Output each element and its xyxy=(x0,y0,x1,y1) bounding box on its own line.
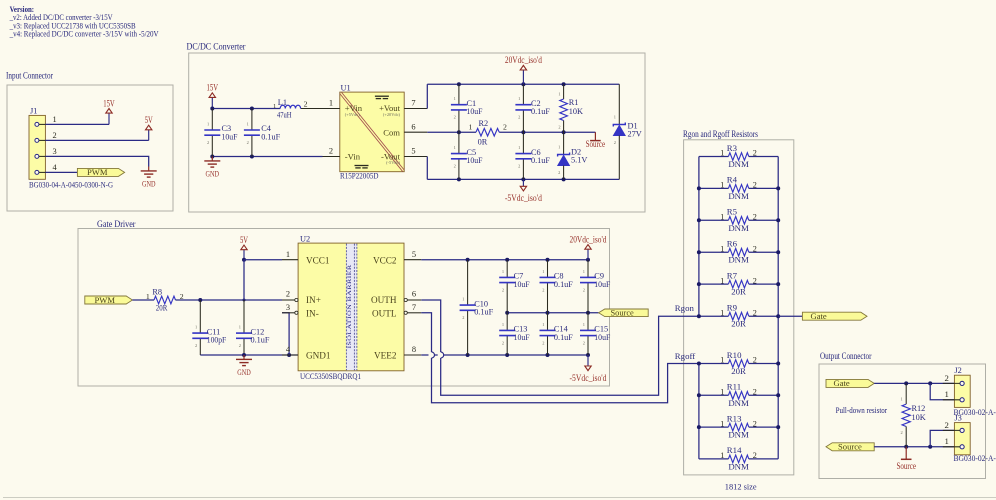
svg-text:1: 1 xyxy=(468,122,472,131)
svg-text:1: 1 xyxy=(518,145,520,150)
svg-text:1: 1 xyxy=(720,181,724,190)
svg-text:2: 2 xyxy=(558,125,560,130)
svg-text:-5Vdc_iso'd: -5Vdc_iso'd xyxy=(505,193,542,203)
svg-text:10uF: 10uF xyxy=(467,156,483,165)
svg-text:2: 2 xyxy=(753,276,757,285)
svg-text:2: 2 xyxy=(503,122,507,131)
svg-text:0.1uF: 0.1uF xyxy=(531,107,550,116)
svg-text:3: 3 xyxy=(286,303,290,312)
svg-text:R2: R2 xyxy=(479,119,489,128)
svg-text:10K: 10K xyxy=(912,413,926,422)
svg-text:DNM: DNM xyxy=(728,223,749,233)
svg-text:Rgoff: Rgoff xyxy=(675,351,695,361)
svg-text:1: 1 xyxy=(454,145,456,150)
svg-text:2: 2 xyxy=(945,373,949,383)
svg-text:J2: J2 xyxy=(954,366,961,375)
svg-text:R5: R5 xyxy=(727,207,738,217)
svg-text:GND: GND xyxy=(206,169,220,179)
svg-text:2: 2 xyxy=(753,308,757,317)
svg-text:VCC1: VCC1 xyxy=(306,255,330,265)
svg-text:20R: 20R xyxy=(731,287,746,297)
svg-text:Source: Source xyxy=(838,442,862,452)
svg-text:1: 1 xyxy=(502,322,504,327)
svg-text:1: 1 xyxy=(329,99,333,108)
svg-text:R6: R6 xyxy=(727,239,738,249)
svg-text:R15P22005D: R15P22005D xyxy=(340,171,379,181)
svg-text:6: 6 xyxy=(411,122,415,131)
svg-text:2: 2 xyxy=(945,420,949,430)
svg-text:5: 5 xyxy=(412,250,416,259)
svg-text:Source: Source xyxy=(896,461,916,471)
svg-text:DNM: DNM xyxy=(728,398,749,408)
svg-text:2: 2 xyxy=(53,131,57,140)
svg-text:ISOLATION BARRIER: ISOLATION BARRIER xyxy=(347,264,353,348)
svg-text:1: 1 xyxy=(247,121,249,126)
svg-text:IN-: IN- xyxy=(306,309,319,319)
svg-text:2: 2 xyxy=(901,430,903,435)
svg-text:R1: R1 xyxy=(569,98,579,107)
svg-text:R12: R12 xyxy=(912,404,926,413)
svg-text:2: 2 xyxy=(753,149,757,158)
svg-text:2: 2 xyxy=(583,287,585,292)
svg-text:5: 5 xyxy=(411,147,415,156)
svg-text:_v4: Replaced DC/DC converter: _v4: Replaced DC/DC converter -3/15V wit… xyxy=(9,28,159,38)
svg-text:100pF: 100pF xyxy=(207,336,227,345)
svg-text:R3: R3 xyxy=(727,143,738,153)
svg-text:2: 2 xyxy=(247,140,249,145)
svg-text:R8: R8 xyxy=(152,287,162,296)
svg-text:2: 2 xyxy=(753,388,757,397)
svg-text:2: 2 xyxy=(207,140,209,145)
svg-text:47uH: 47uH xyxy=(277,111,292,120)
svg-text:20Vdc_iso'd: 20Vdc_iso'd xyxy=(505,55,542,65)
svg-text:1: 1 xyxy=(53,115,57,124)
svg-text:R4: R4 xyxy=(727,175,738,185)
svg-text:2: 2 xyxy=(329,147,333,156)
svg-text:BG030-04-A-0450-0300-N-G: BG030-04-A-0450-0300-N-G xyxy=(29,179,114,189)
svg-text:1: 1 xyxy=(558,144,560,149)
svg-text:-Vin: -Vin xyxy=(345,151,361,161)
svg-text:10uF: 10uF xyxy=(594,333,610,342)
svg-text:Gate: Gate xyxy=(834,378,850,388)
svg-text:Rgon: Rgon xyxy=(675,303,695,313)
svg-text:DC/DC Converter: DC/DC Converter xyxy=(187,42,246,52)
svg-text:1: 1 xyxy=(273,103,276,110)
svg-text:GND: GND xyxy=(142,179,156,189)
svg-text:1: 1 xyxy=(286,250,290,259)
svg-text:2: 2 xyxy=(454,164,456,169)
svg-text:DNM: DNM xyxy=(728,255,749,265)
svg-text:OUTL: OUTL xyxy=(372,309,397,319)
svg-text:1: 1 xyxy=(239,325,241,330)
svg-text:R11: R11 xyxy=(727,382,741,392)
svg-text:27V: 27V xyxy=(628,129,642,138)
svg-text:5V: 5V xyxy=(145,115,153,125)
svg-text:2: 2 xyxy=(753,451,757,460)
svg-text:2: 2 xyxy=(583,340,585,345)
svg-text:5.1V: 5.1V xyxy=(571,155,587,164)
svg-text:0.1uF: 0.1uF xyxy=(474,308,493,317)
svg-text:1: 1 xyxy=(583,269,585,274)
svg-text:1: 1 xyxy=(720,244,724,253)
svg-text:(-5Vdc): (-5Vdc) xyxy=(386,160,400,165)
svg-text:1: 1 xyxy=(454,96,456,101)
svg-text:10K: 10K xyxy=(569,107,583,116)
svg-text:VEE2: VEE2 xyxy=(374,351,397,361)
svg-text:1: 1 xyxy=(945,389,949,399)
svg-text:R10: R10 xyxy=(727,350,742,360)
svg-text:Pull-down resistor: Pull-down resistor xyxy=(836,405,888,415)
svg-text:VCC2: VCC2 xyxy=(373,255,397,265)
svg-text:15V: 15V xyxy=(103,98,115,108)
svg-text:1: 1 xyxy=(720,213,724,222)
svg-text:Source: Source xyxy=(586,139,606,149)
svg-text:1: 1 xyxy=(720,276,724,285)
svg-text:2: 2 xyxy=(502,287,504,292)
svg-text:J3: J3 xyxy=(954,413,961,422)
svg-text:R14: R14 xyxy=(727,445,742,455)
svg-text:10uF: 10uF xyxy=(514,333,530,342)
svg-text:2: 2 xyxy=(753,181,757,190)
svg-text:1: 1 xyxy=(542,322,544,327)
svg-text:Source: Source xyxy=(611,309,635,318)
svg-text:2: 2 xyxy=(502,340,504,345)
svg-text:10uF: 10uF xyxy=(514,280,530,289)
svg-text:2: 2 xyxy=(518,164,520,169)
svg-text:2: 2 xyxy=(753,244,757,253)
svg-text:2: 2 xyxy=(753,419,757,428)
svg-text:1: 1 xyxy=(945,436,949,446)
svg-text:1: 1 xyxy=(720,149,724,158)
svg-text:2: 2 xyxy=(454,115,456,120)
svg-text:10uF: 10uF xyxy=(594,280,610,289)
svg-text:2: 2 xyxy=(753,213,757,222)
svg-text:Output Connector: Output Connector xyxy=(820,351,872,361)
svg-text:BG030-02-A-04: BG030-02-A-04 xyxy=(954,453,996,463)
svg-text:20R: 20R xyxy=(731,319,746,329)
svg-text:2: 2 xyxy=(614,140,616,145)
svg-text:U2: U2 xyxy=(300,234,310,243)
svg-text:1: 1 xyxy=(720,419,724,428)
svg-text:1: 1 xyxy=(720,308,724,317)
svg-text:0R: 0R xyxy=(478,138,488,147)
svg-text:1: 1 xyxy=(720,451,724,460)
svg-text:(+5Vdc): (+5Vdc) xyxy=(345,112,360,117)
svg-text:15V: 15V xyxy=(207,83,219,93)
svg-text:PWM: PWM xyxy=(95,295,116,305)
svg-text:L1: L1 xyxy=(278,98,287,107)
svg-text:0.1uF: 0.1uF xyxy=(554,333,573,342)
svg-text:2: 2 xyxy=(462,315,464,320)
svg-text:10uF: 10uF xyxy=(222,132,238,141)
svg-text:DNM: DNM xyxy=(728,191,749,201)
svg-text:DNM: DNM xyxy=(728,461,749,471)
svg-text:(+20Vdc): (+20Vdc) xyxy=(383,112,401,117)
svg-text:3: 3 xyxy=(53,147,57,156)
svg-text:1: 1 xyxy=(502,269,504,274)
svg-text:Com: Com xyxy=(383,127,400,137)
svg-text:UCC5350SBQDRQ1: UCC5350SBQDRQ1 xyxy=(300,371,361,381)
svg-text:2: 2 xyxy=(304,100,308,109)
svg-text:5V: 5V xyxy=(240,235,248,245)
svg-text:0.1uF: 0.1uF xyxy=(261,132,280,141)
svg-text:1: 1 xyxy=(462,297,464,302)
svg-text:1812 size: 1812 size xyxy=(725,482,757,491)
svg-text:DNM: DNM xyxy=(728,159,749,169)
svg-text:1: 1 xyxy=(558,91,560,96)
svg-text:10uF: 10uF xyxy=(467,107,483,116)
svg-text:0.1uF: 0.1uF xyxy=(531,156,550,165)
svg-text:2: 2 xyxy=(195,343,197,348)
svg-text:GND1: GND1 xyxy=(306,351,331,361)
svg-text:8: 8 xyxy=(412,345,416,354)
svg-text:7: 7 xyxy=(411,99,415,108)
svg-text:2: 2 xyxy=(558,170,560,175)
svg-text:Input Connector: Input Connector xyxy=(6,71,53,81)
svg-text:R7: R7 xyxy=(727,270,738,280)
svg-text:R13: R13 xyxy=(727,413,742,423)
svg-text:20R: 20R xyxy=(731,366,746,376)
svg-text:1: 1 xyxy=(195,325,197,330)
svg-text:1: 1 xyxy=(614,114,616,119)
svg-text:20R: 20R xyxy=(156,304,168,313)
svg-text:1: 1 xyxy=(901,396,903,401)
svg-text:Gate Driver: Gate Driver xyxy=(97,219,136,229)
svg-text:Rgon and Rgoff Resistors: Rgon and Rgoff Resistors xyxy=(683,129,758,139)
svg-text:2: 2 xyxy=(753,356,757,365)
svg-text:R9: R9 xyxy=(727,303,738,313)
svg-text:IN+: IN+ xyxy=(306,295,321,305)
svg-text:1: 1 xyxy=(542,269,544,274)
svg-text:0.1uF: 0.1uF xyxy=(554,280,573,289)
svg-text:20Vdc_iso'd: 20Vdc_iso'd xyxy=(570,234,607,244)
svg-text:1: 1 xyxy=(207,121,209,126)
svg-text:2: 2 xyxy=(518,115,520,120)
svg-text:2: 2 xyxy=(542,340,544,345)
svg-text:J1: J1 xyxy=(30,106,37,115)
svg-text:6: 6 xyxy=(412,290,416,299)
svg-text:2: 2 xyxy=(542,287,544,292)
svg-text:1: 1 xyxy=(720,388,724,397)
svg-text:1: 1 xyxy=(583,322,585,327)
svg-text:PWM: PWM xyxy=(87,167,108,177)
svg-text:GND: GND xyxy=(237,367,251,377)
svg-text:7: 7 xyxy=(412,303,416,312)
svg-text:DNM: DNM xyxy=(728,430,749,440)
svg-text:2: 2 xyxy=(239,343,241,348)
svg-text:0.1uF: 0.1uF xyxy=(251,336,270,345)
svg-text:OUTH: OUTH xyxy=(371,295,397,305)
svg-text:2: 2 xyxy=(286,290,290,299)
svg-text:U1: U1 xyxy=(341,83,351,92)
svg-text:1: 1 xyxy=(518,96,520,101)
svg-text:Gate: Gate xyxy=(811,311,827,321)
svg-text:1: 1 xyxy=(720,356,724,365)
svg-text:-5Vdc_iso'd: -5Vdc_iso'd xyxy=(570,373,607,383)
svg-text:1: 1 xyxy=(146,292,150,301)
